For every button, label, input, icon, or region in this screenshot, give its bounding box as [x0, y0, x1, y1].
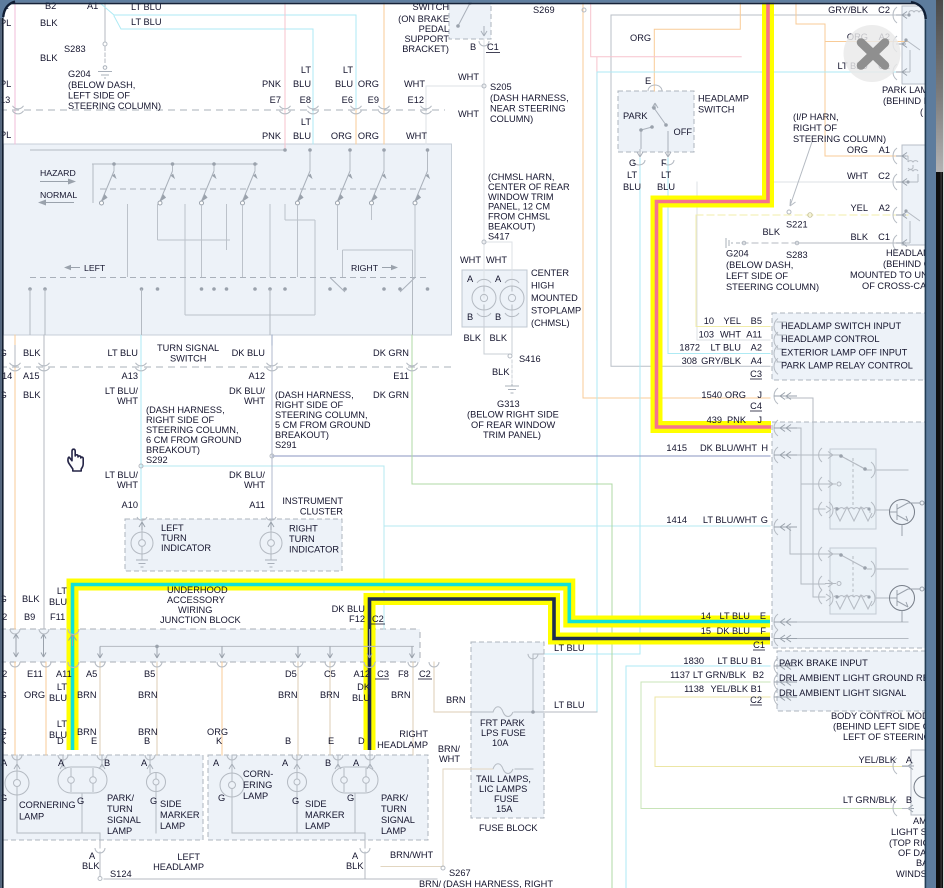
wire relay pins right [777, 322, 786, 362]
ground right indicator [265, 560, 277, 567]
svg-text:LAMP: LAMP [160, 821, 185, 831]
node S283 [103, 42, 107, 46]
svg-text:(BEHIND LEFT SIDE OF: (BEHIND LEFT SIDE OF [833, 722, 936, 732]
svg-text:A: A [352, 851, 359, 861]
svg-text:LAMP: LAMP [19, 812, 44, 822]
wire BRN A5 [99, 662, 101, 755]
svg-text:K: K [216, 736, 223, 746]
ground G204 [103, 66, 107, 70]
svg-text:STOPLAMP: STOPLAMP [531, 306, 581, 316]
svg-text:ORG: ORG [630, 33, 651, 43]
svg-text:BLK: BLK [22, 594, 40, 604]
wire PNK 439 core [657, 0, 772, 427]
svg-text:LIC LAMPS: LIC LAMPS [479, 784, 527, 794]
wire right blk stub [364, 852, 366, 879]
svg-text:A2: A2 [879, 203, 890, 213]
svg-text:LAMP: LAMP [305, 821, 330, 831]
wire LT BLU F pin to 1872 [668, 158, 770, 354]
svg-text:A12: A12 [249, 371, 265, 381]
switch TS row1 dashed [100, 188, 427, 190]
svg-text:EXTERIOR LAMP OFF INPUT: EXTERIOR LAMP OFF INPUT [781, 348, 908, 358]
svg-text:LT BLU: LT BLU [131, 17, 162, 27]
svg-text:B5: B5 [751, 316, 762, 326]
svg-text:C4: C4 [750, 401, 762, 411]
wire LT BLU 14 highlighted halo [73, 585, 771, 751]
svg-text:A10: A10 [122, 500, 138, 510]
svg-text:BLU: BLU [293, 131, 311, 141]
svg-text:J: J [757, 415, 762, 425]
svg-text:A: A [213, 758, 220, 768]
svg-text:(CHMSL): (CHMSL) [531, 318, 570, 328]
headlamp switch box [618, 91, 694, 152]
wire LT BLU/WHT 1414 [141, 466, 770, 629]
svg-text:(BELOW DASH,: (BELOW DASH, [726, 260, 793, 270]
svg-text:WHT: WHT [486, 255, 507, 265]
wire YEL 10 B5 [696, 215, 770, 327]
svg-text:E: E [91, 736, 97, 746]
switch TS row2 contacts [28, 287, 429, 291]
svg-text:G: G [150, 796, 157, 806]
svg-text:WHT: WHT [460, 255, 481, 265]
svg-text:BRN: BRN [391, 690, 411, 700]
svg-text:GRY/BLK: GRY/BLK [828, 5, 869, 15]
wire ORG 1540 [583, 0, 770, 398]
svg-text:YEL: YEL [851, 203, 868, 213]
switch TS row1 contacts [100, 148, 431, 205]
svg-text:F: F [661, 158, 667, 168]
dimmer unit1 box [830, 449, 876, 529]
svg-text:BLK: BLK [40, 18, 58, 28]
wire BLK top-left to G204 [104, 0, 106, 41]
svg-text:MARKER: MARKER [160, 810, 200, 820]
node S221 [808, 213, 812, 217]
svg-text:(BELOW DASH,: (BELOW DASH, [68, 80, 135, 90]
svg-text:LAMP: LAMP [243, 791, 268, 801]
svg-text:A: A [495, 274, 502, 284]
svg-text:G: G [77, 796, 84, 806]
svg-text:G: G [218, 793, 225, 803]
svg-text:1830: 1830 [683, 656, 704, 666]
svg-text:439: 439 [707, 415, 722, 425]
svg-text:G: G [347, 793, 354, 803]
svg-text:A: A [906, 755, 913, 765]
wire PNK E7 [284, 0, 286, 150]
svg-text:E11: E11 [393, 371, 409, 381]
svg-text:FUSE: FUSE [494, 794, 519, 804]
svg-text:COLUMN): COLUMN) [490, 114, 533, 124]
svg-text:PNK: PNK [262, 131, 282, 141]
wire YEL/BLK 1138 [655, 697, 909, 767]
relay park lamps internals [902, 11, 924, 72]
svg-text:1415: 1415 [666, 443, 687, 453]
svg-text:1137: 1137 [670, 670, 690, 680]
svg-text:DK BLU: DK BLU [232, 348, 265, 358]
wire BRN D5 [297, 662, 299, 755]
svg-text:PNK: PNK [727, 415, 747, 425]
wire WHT CHMSL grounds [484, 310, 512, 354]
svg-text:SIDE: SIDE [305, 799, 327, 809]
svg-text:PANEL, 12 CM: PANEL, 12 CM [488, 202, 550, 212]
lamp side marker R [288, 773, 307, 792]
svg-text:LEFT OF STEERING: LEFT OF STEERING [843, 732, 931, 742]
svg-text:B: B [495, 312, 501, 322]
svg-text:FROM CHMSL: FROM CHMSL [488, 212, 550, 222]
svg-text:STEERING COLUMN): STEERING COLUMN) [726, 282, 819, 292]
wire lamp grounds left box [17, 792, 156, 848]
svg-text:DK BLU/WHT: DK BLU/WHT [700, 443, 757, 453]
wire LT BLU 14 core [73, 585, 771, 751]
svg-text:ORG: ORG [725, 390, 746, 400]
svg-text:5 CM FROM GROUND: 5 CM FROM GROUND [275, 420, 371, 430]
connector line top E-row [0, 109, 445, 111]
node S269 [582, 8, 586, 12]
svg-text:(I/P HARN,: (I/P HARN, [793, 112, 839, 122]
svg-text:BRN: BRN [278, 690, 298, 700]
svg-text:E12: E12 [408, 95, 424, 105]
wire dimmer J feed [786, 428, 825, 584]
svg-text:BLK: BLK [492, 367, 510, 377]
svg-text:TAIL LAMPS,: TAIL LAMPS, [476, 774, 531, 784]
svg-text:A13: A13 [122, 371, 138, 381]
svg-text:LT BLU/: LT BLU/ [105, 470, 139, 480]
svg-text:1540: 1540 [701, 390, 722, 400]
svg-text:BRN: BRN [320, 690, 340, 700]
svg-text:STEERING COLUMN): STEERING COLUMN) [68, 101, 161, 111]
junction bumps [10, 629, 439, 668]
svg-text:BLK: BLK [346, 861, 364, 871]
svg-text:LT GRN/BLK: LT GRN/BLK [693, 670, 747, 680]
svg-text:10A: 10A [492, 738, 509, 748]
svg-text:BLK: BLK [23, 348, 41, 358]
svg-text:TURN: TURN [289, 534, 315, 544]
svg-text:S124: S124 [110, 869, 132, 879]
svg-text:YEL: YEL [724, 316, 741, 326]
wire ORG E9 [383, 0, 385, 144]
wire TS panel mid drops [128, 204, 416, 315]
svg-text:J: J [757, 390, 762, 400]
svg-text:SWITCH: SWITCH [698, 105, 734, 115]
svg-text:E: E [645, 76, 651, 86]
svg-text:BLK: BLK [82, 861, 100, 871]
svg-text:BLK: BLK [23, 390, 41, 400]
svg-text:G: G [761, 515, 768, 525]
viewer top-left corner [0, 0, 16, 18]
svg-text:DK GRN: DK GRN [373, 390, 409, 400]
wire TS panel exits [15, 278, 413, 368]
wire LT BLU top A [100, 3, 356, 110]
junction block arrows [14, 634, 47, 657]
svg-text:INSTRUMENT: INSTRUMENT [282, 496, 343, 506]
svg-text:LPS FUSE: LPS FUSE [481, 728, 526, 738]
svg-text:F8: F8 [398, 669, 409, 679]
svg-text:15: 15 [701, 626, 711, 636]
fuse TAIL LAMPS [493, 764, 513, 774]
ground G313 [505, 384, 519, 393]
svg-text:WHT: WHT [404, 79, 425, 89]
lamp box top bumps [12, 755, 375, 760]
svg-text:LT: LT [57, 682, 67, 692]
svg-text:C5: C5 [324, 669, 336, 679]
svg-text:B: B [104, 758, 110, 768]
svg-text:HEADLAMP: HEADLAMP [153, 862, 204, 872]
svg-text:BLK: BLK [851, 232, 869, 242]
svg-text:CENTER OF REAR: CENTER OF REAR [488, 182, 570, 192]
svg-text:14: 14 [701, 611, 711, 621]
wire cluster lamp stems [142, 519, 271, 560]
node S283 right [795, 241, 799, 245]
svg-text:B: B [144, 736, 150, 746]
connector arcs mid-right C3 C4 [774, 319, 778, 706]
viewer top band [0, 0, 944, 3]
wire YEL S221 [696, 214, 908, 216]
svg-text:TURN: TURN [107, 804, 133, 814]
svg-text:WHT: WHT [244, 480, 265, 490]
wire LT GRN/BLK 1137 [641, 682, 909, 809]
wire LT BLU 1830 [626, 666, 770, 888]
svg-text:DK BLU/: DK BLU/ [229, 470, 265, 480]
headlamps module box right edge [902, 145, 926, 245]
wire ORG E headlamp switch [654, 0, 740, 91]
stoplamp switch box [449, 0, 491, 39]
svg-text:DK BLU/: DK BLU/ [229, 386, 265, 396]
svg-text:LT: LT [301, 117, 311, 127]
svg-text:C2: C2 [372, 614, 384, 624]
switch TS contact stubs [93, 150, 428, 203]
svg-text:S283: S283 [64, 44, 86, 54]
wire ORG below junction left [14, 662, 16, 755]
svg-text:LT: LT [627, 170, 637, 180]
svg-text:WHT: WHT [847, 171, 868, 181]
svg-text:INDICATOR: INDICATOR [289, 545, 339, 555]
wire dimmer G row [786, 527, 825, 554]
svg-text:SIDE: SIDE [160, 799, 182, 809]
HIGHLIGHT WIRES [73, 0, 772, 750]
svg-text:(ON BRAKE: (ON BRAKE [398, 14, 449, 24]
svg-text:6 CM FROM GROUND: 6 CM FROM GROUND [146, 435, 242, 445]
svg-text:B1: B1 [751, 684, 762, 694]
svg-text:LAMP: LAMP [107, 826, 132, 836]
svg-text:BREAKOUT): BREAKOUT) [275, 430, 329, 440]
svg-text:DK BLU: DK BLU [332, 604, 365, 614]
svg-text:E11: E11 [27, 669, 43, 679]
svg-text:RIGHT SIDE OF: RIGHT SIDE OF [275, 400, 344, 410]
svg-text:LT: LT [57, 719, 67, 729]
svg-text:INDICATOR: INDICATOR [161, 543, 211, 553]
ground left indicator [136, 560, 148, 567]
svg-text:A15: A15 [23, 371, 39, 381]
svg-text:LEFT SIDE OF: LEFT SIDE OF [68, 91, 130, 101]
svg-text:STEERING COLUMN,: STEERING COLUMN, [275, 410, 368, 420]
dimmer left pins arcs [819, 448, 833, 604]
svg-text:TURN: TURN [381, 804, 407, 814]
ambient sensor pins [902, 767, 911, 809]
fuse FRT PARK [493, 707, 513, 717]
svg-text:B: B [467, 312, 473, 322]
wire BRN F8 [412, 662, 414, 755]
svg-text:15A: 15A [496, 804, 513, 814]
svg-text:E7: E7 [270, 95, 281, 105]
svg-text:(BELOW RIGHT SIDE: (BELOW RIGHT SIDE [467, 410, 559, 420]
svg-text:B: B [906, 795, 912, 805]
connector bumps A-row [10, 363, 418, 371]
svg-text:HAZARD: HAZARD [40, 168, 76, 178]
wire GRY/BLK 308 [611, 15, 908, 366]
svg-text:SUPPORT: SUPPORT [404, 34, 449, 44]
svg-text:LT GRN/BLK: LT GRN/BLK [843, 795, 897, 805]
svg-text:S205: S205 [490, 82, 512, 92]
wire BLK A15 col [43, 335, 45, 629]
svg-text:RIGHT OF: RIGHT OF [793, 123, 837, 133]
svg-text:B2: B2 [753, 670, 764, 680]
svg-text:FUSE BLOCK: FUSE BLOCK [479, 823, 538, 833]
svg-text:D: D [358, 736, 365, 746]
svg-text:A: A [467, 274, 474, 284]
svg-text:S269: S269 [533, 5, 555, 15]
svg-text:SWITCH: SWITCH [170, 354, 206, 364]
park lamps relay box [902, 6, 926, 84]
svg-text:ORG: ORG [847, 145, 868, 155]
wire LT BLU G pin to fuse block [544, 158, 640, 654]
svg-text:ORG: ORG [331, 131, 352, 141]
svg-text:ERING: ERING [243, 780, 272, 790]
wire DK BLU 15 highlighted halo [370, 599, 771, 750]
svg-text:NEAR STEERING: NEAR STEERING [490, 104, 566, 114]
lamp CHMSL 2 [500, 279, 524, 316]
svg-text:S221: S221 [786, 220, 808, 230]
svg-text:MOUNTED: MOUNTED [531, 293, 578, 303]
svg-text:(CHMSL HARN,: (CHMSL HARN, [488, 172, 554, 182]
svg-text:308: 308 [682, 356, 697, 366]
svg-text:STEERING COLUMN): STEERING COLUMN) [793, 134, 886, 144]
wire BRN B5 [156, 662, 158, 755]
svg-text:(DASH HARNESS, RIGHT: (DASH HARNESS, RIGHT [443, 879, 553, 888]
svg-text:RIGHT: RIGHT [399, 729, 428, 739]
svg-text:LT BLU: LT BLU [554, 643, 585, 653]
svg-text:A5: A5 [86, 669, 97, 679]
svg-text:LEFT: LEFT [161, 523, 184, 533]
lamp right turn indicator [260, 532, 282, 554]
svg-text:A: A [141, 758, 148, 768]
wire BRN/WHT S267 [381, 866, 443, 868]
svg-text:C2: C2 [878, 171, 890, 181]
svg-text:C2: C2 [750, 695, 762, 705]
svg-text:C2: C2 [419, 669, 431, 679]
svg-text:C1: C1 [878, 232, 890, 242]
svg-text:A11: A11 [249, 500, 265, 510]
wire LT BLU A13 col [140, 335, 142, 345]
svg-text:PNK: PNK [262, 79, 282, 89]
svg-text:A1: A1 [879, 145, 890, 155]
svg-text:LT BLU: LT BLU [107, 348, 138, 358]
svg-text:BLU: BLU [335, 79, 353, 89]
junction block bus [100, 645, 414, 647]
transistor Q1 [890, 500, 925, 537]
lamp CHMSL 1 [472, 279, 496, 316]
svg-text:NORMAL: NORMAL [40, 190, 77, 200]
svg-text:JUNCTION BLOCK: JUNCTION BLOCK [160, 615, 242, 625]
svg-text:STEERING COLUMN,: STEERING COLUMN, [146, 425, 239, 435]
close button X [844, 25, 901, 82]
svg-text:WHT: WHT [458, 109, 479, 119]
wire DK GRN E11 col [411, 335, 413, 345]
svg-text:S283: S283 [786, 250, 808, 260]
lamp park/turn R [332, 767, 378, 793]
svg-text:LEFT: LEFT [177, 852, 200, 862]
arrow right [382, 267, 396, 269]
wire PNK 439 highlighted halo [657, 0, 772, 427]
svg-text:C2: C2 [878, 5, 890, 15]
svg-text:BLK: BLK [40, 53, 58, 63]
svg-text:D5: D5 [285, 669, 297, 679]
svg-text:LEFT SIDE OF: LEFT SIDE OF [726, 271, 788, 281]
svg-text:BLU: BLU [49, 693, 67, 703]
svg-text:LAMP: LAMP [381, 826, 406, 836]
connector arrows mid-right rows [774, 393, 797, 701]
wire WHT C2 right [770, 181, 908, 183]
scrollbar strip [936, 0, 944, 175]
fuse block box [471, 642, 544, 818]
svg-text:A2: A2 [751, 343, 762, 353]
svg-text:B1: B1 [751, 656, 762, 666]
svg-text:S292: S292 [146, 455, 168, 465]
ambient sensor circle [914, 776, 936, 798]
svg-text:WIRING: WIRING [178, 605, 212, 615]
svg-text:HEADLAMP: HEADLAMP [377, 740, 428, 750]
node S205 [482, 84, 486, 88]
turn signal switch panel body [4, 144, 452, 335]
svg-text:C3: C3 [377, 669, 389, 679]
svg-text:BRN/: BRN/ [419, 879, 442, 888]
svg-text:E: E [760, 611, 766, 621]
svg-text:F: F [760, 626, 766, 636]
wire WHT stoplamp to S205 to E12 [426, 39, 484, 298]
svg-text:S267: S267 [449, 868, 471, 878]
svg-text:S291: S291 [275, 440, 297, 450]
lamp box bottom bumps [95, 848, 370, 853]
lamp left turn indicator [131, 532, 153, 554]
wire BRN/WHT to tail fuse [443, 769, 493, 866]
junction arrow at F11/A11 [69, 634, 77, 646]
svg-text:S416: S416 [519, 354, 541, 364]
svg-text:BLU: BLU [293, 79, 311, 89]
lamp cornering R [220, 773, 244, 797]
svg-text:WHT: WHT [117, 396, 138, 406]
svg-text:BREAKOUT): BREAKOUT) [146, 445, 200, 455]
wire DK GRN E11 down [412, 345, 612, 888]
svg-text:BLU: BLU [657, 182, 675, 192]
svg-text:LT BLU: LT BLU [554, 700, 585, 710]
svg-text:WHT: WHT [117, 480, 138, 490]
svg-text:BRN: BRN [77, 690, 97, 700]
viewer left band [0, 0, 2, 888]
svg-text:WHT: WHT [406, 131, 427, 141]
wire ORG E11 below junction [45, 662, 47, 755]
connector arcs right edge pins [893, 7, 897, 816]
wire PPL left vertical [14, 0, 16, 144]
svg-text:BLU: BLU [49, 597, 67, 607]
svg-text:BLU: BLU [623, 182, 641, 192]
svg-text:ORG: ORG [24, 690, 45, 700]
svg-text:(DASH HARNESS,: (DASH HARNESS, [146, 405, 225, 415]
svg-text:E6: E6 [342, 95, 353, 105]
arrow normal [40, 202, 74, 204]
svg-text:OFF: OFF [674, 127, 693, 137]
svg-text:TURN: TURN [161, 533, 187, 543]
wire LT BLU C1 loop to fuse [544, 72, 908, 712]
svg-text:E9: E9 [368, 95, 379, 105]
wire dimmer ORG feed [786, 398, 825, 597]
wire lamp feeds into boxes [17, 749, 370, 773]
